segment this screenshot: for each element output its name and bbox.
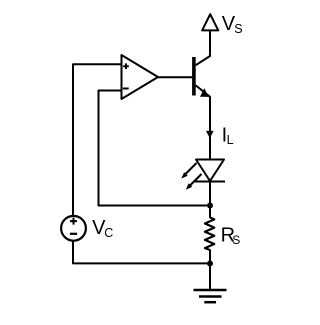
svg-text:S: S	[234, 22, 242, 36]
svg-text:L: L	[227, 133, 234, 147]
svg-text:S: S	[232, 233, 240, 247]
svg-text:C: C	[104, 226, 113, 240]
